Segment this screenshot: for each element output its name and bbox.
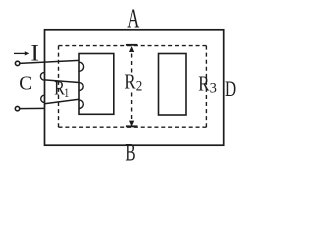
outer shield box D <box>45 30 224 145</box>
R2 dimension dashed line lower <box>131 93 133 120</box>
R2 bottom arrow head <box>129 121 134 127</box>
svg-text:R: R <box>124 71 135 94</box>
current arrow shaft <box>14 52 25 54</box>
wire turn W2 of winding R1 <box>44 80 79 83</box>
terminal C top <box>15 61 19 65</box>
svg-text:R: R <box>198 73 209 96</box>
label R3 <box>198 73 217 97</box>
inner dashed shield box left edge <box>58 46 60 128</box>
winding loop A1 on box wall <box>40 72 44 80</box>
R2 dimension dashed line upper <box>131 54 133 73</box>
right component rectangle <box>159 54 187 116</box>
wire turn W3 of winding R1 <box>44 99 79 104</box>
bobbin core rectangle (R1 winding form) <box>79 54 114 115</box>
svg-text:A: A <box>127 4 140 34</box>
R2 top arrow T-bar <box>126 44 137 46</box>
current arrow head <box>25 51 30 55</box>
R2 top arrow head <box>129 46 134 52</box>
svg-text:2: 2 <box>136 78 143 94</box>
winding loop A2 on box wall <box>41 95 45 102</box>
svg-text:1: 1 <box>64 86 69 100</box>
inner dashed shield box bottom edge <box>59 126 207 128</box>
label R2 <box>124 71 142 94</box>
R2 bottom arrow T-bar <box>126 125 137 127</box>
inner dashed shield box right edge <box>205 46 207 128</box>
terminal C bottom <box>15 106 19 110</box>
winding loop B1 on core left edge <box>79 62 84 71</box>
svg-text:C: C <box>19 72 32 95</box>
winding loop B3 on core left edge <box>79 100 83 109</box>
wire from top terminal to winding <box>20 60 79 63</box>
inner dashed shield box top edge <box>59 45 207 47</box>
label R1 <box>54 77 69 101</box>
svg-text:D: D <box>225 78 236 102</box>
svg-text:I: I <box>30 41 39 66</box>
winding loop B2 on core left edge <box>79 83 83 91</box>
svg-text:3: 3 <box>210 80 217 96</box>
wire from bottom terminal to box wall <box>20 107 45 109</box>
svg-text:B: B <box>125 137 135 166</box>
